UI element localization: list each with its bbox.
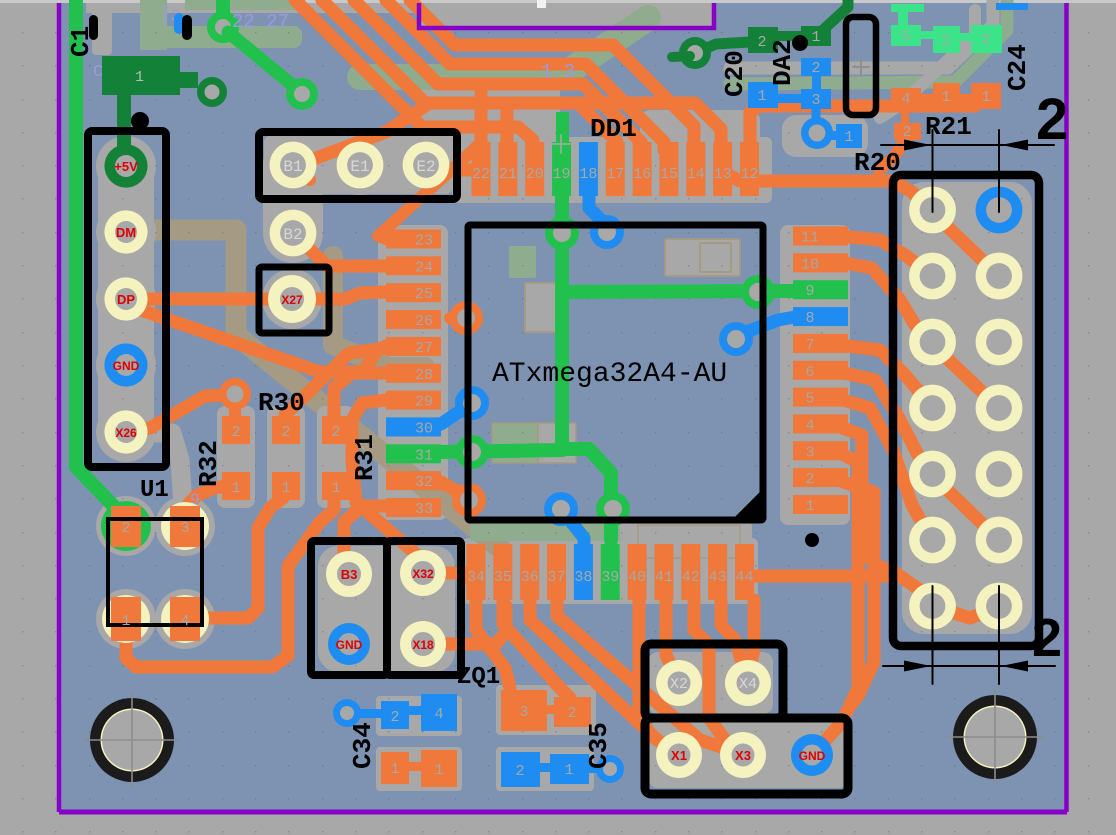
svg-text:2: 2 <box>1036 87 1068 152</box>
mounting hole bottom-right <box>953 695 1037 779</box>
connector pad X1 <box>656 732 702 778</box>
DD1 pad 44 <box>735 544 754 600</box>
wire pad 35 to C35 pad2 <box>503 600 570 698</box>
black pill marker 1 <box>89 15 98 40</box>
green via bottom <box>596 492 630 526</box>
svg-text:10: 10 <box>801 256 819 273</box>
capacitor C20 pad 2 <box>748 27 778 53</box>
svg-text:29: 29 <box>415 394 433 411</box>
svg-text:B3: B3 <box>341 567 358 582</box>
svg-text:41: 41 <box>655 569 673 586</box>
wire pad 32 to via <box>441 482 468 499</box>
muted component inside DD1 bottom-center <box>638 525 740 558</box>
blue via DA2 <box>801 117 833 149</box>
DD1 pad 5 <box>793 388 848 407</box>
connector U2 pad GND <box>104 343 147 386</box>
svg-text:19: 19 <box>553 166 571 183</box>
svg-text:22 27: 22 27 <box>232 11 289 33</box>
svg-text:23: 23 <box>415 233 433 250</box>
dark green via C20 <box>679 37 711 69</box>
svg-text:X27: X27 <box>281 293 303 307</box>
wire blue via to pad 8 <box>741 317 795 334</box>
sage band below DD1 <box>470 522 625 541</box>
svg-text:2: 2 <box>1032 608 1062 668</box>
wire pad 40 to X1 <box>639 600 672 750</box>
svg-text:2: 2 <box>331 424 340 441</box>
dimension top arrow right <box>1001 140 1028 151</box>
ZQ1 pad X18 <box>400 621 446 667</box>
wire R20 diagonal r1c1-r2c2 <box>932 212 999 276</box>
wire pad 44 to R20 r7c1 <box>754 576 929 604</box>
wire X32 to pad 34 <box>447 573 476 600</box>
gray backing B2 pad <box>263 203 323 263</box>
svg-text:GND: GND <box>336 638 363 652</box>
svg-text:22: 22 <box>472 166 490 183</box>
DD1 pad 6 <box>793 361 848 380</box>
wire pad 33 to B3 <box>344 506 386 566</box>
wire pad 6 to R20 r5c1 <box>840 372 928 468</box>
svg-text:2: 2 <box>390 709 399 726</box>
svg-text:14: 14 <box>687 166 705 183</box>
blue pill marker <box>174 13 184 34</box>
blue trace top right edge <box>996 3 1028 10</box>
wire C1 to +5V pad <box>117 95 131 148</box>
connector pad GND2 <box>791 734 833 776</box>
wire X32 to pad 29 <box>352 400 423 560</box>
wire blue via to pad 38 <box>564 513 584 550</box>
svg-text:16: 16 <box>633 166 651 183</box>
svg-text:5: 5 <box>805 391 814 408</box>
connector pad X3 <box>720 732 766 778</box>
wire X26 to via <box>135 395 232 430</box>
svg-text:1: 1 <box>331 480 340 497</box>
wire E2 to pad 22 <box>449 164 473 177</box>
connector pad B2 <box>270 210 317 257</box>
DD1 pad 16 <box>633 142 652 196</box>
svg-text:X2: X2 <box>670 676 688 693</box>
DD1 pad 2 <box>793 468 848 487</box>
wire blue pad18 to via <box>589 176 607 226</box>
svg-text:2: 2 <box>805 471 814 488</box>
svg-text:E1: E1 <box>350 158 369 176</box>
svg-text:12: 12 <box>740 166 758 183</box>
R20 pad row6 col1 <box>909 517 956 564</box>
sage cross near pad 19 <box>552 143 570 145</box>
DD1 pad 25 <box>386 283 441 302</box>
resistor R31 pad 2 <box>322 416 350 444</box>
svg-text:C34: C34 <box>348 722 378 769</box>
resistor R30 pad 1 <box>272 472 300 500</box>
C24 bridges and stem <box>919 31 935 39</box>
DD1 pad 37 <box>547 544 566 600</box>
svg-text:34: 34 <box>467 569 485 586</box>
wire green pad19 net vertical <box>555 176 569 449</box>
transistor DA2 pad 3 <box>801 89 831 109</box>
silkscreen box crystal top right <box>846 17 876 115</box>
DD1 pad 43 <box>708 544 727 600</box>
green via left <box>455 435 489 469</box>
blue pad 1 lower <box>836 124 862 148</box>
DD1 pad 7 <box>793 334 848 353</box>
svg-text:1: 1 <box>135 69 144 86</box>
wire pad 5 to R20 r6c1 <box>840 399 926 530</box>
svg-text:ZQ1: ZQ1 <box>457 664 500 691</box>
capacitor C35 pad 2b <box>501 752 540 787</box>
wire blue via to pad 30 <box>441 407 466 424</box>
svg-text:2: 2 <box>515 763 524 780</box>
connector pad X4 <box>725 660 771 706</box>
wire R32 via to pad2 <box>229 398 241 416</box>
mounting hole bottom-left <box>90 698 174 782</box>
connector pad X27 <box>268 275 316 323</box>
R20 pad row5 col1 <box>909 451 956 498</box>
svg-text:2: 2 <box>941 33 950 50</box>
dimension bottom extension line 2 <box>998 586 1000 684</box>
svg-text:20: 20 <box>526 166 544 183</box>
wire green stub above pad 19 <box>556 112 569 146</box>
R20 pad row5 col2 <box>976 451 1023 498</box>
DD1 pad 4 <box>793 414 848 433</box>
svg-text:40: 40 <box>628 569 646 586</box>
svg-text:26: 26 <box>415 313 433 330</box>
svg-text:B1: B1 <box>283 158 302 176</box>
svg-text:8: 8 <box>805 310 814 327</box>
DD1 pad 33 <box>386 498 441 517</box>
dimension top arrow left <box>904 140 931 151</box>
svg-text:4: 4 <box>180 613 189 630</box>
gray blob behind DA2 via <box>782 115 868 157</box>
silkscreen box left connector U2 <box>88 131 166 467</box>
capacitor C20 pad 1 <box>801 26 831 46</box>
svg-text:DD1: DD1 <box>590 114 637 144</box>
svg-text:E2: E2 <box>416 158 435 176</box>
U1 pad 1 cream backing <box>102 595 150 643</box>
gray copper behind bundle elbows <box>420 78 560 140</box>
gray backing X2 X4 connector <box>648 652 773 714</box>
sage trace top strip <box>185 0 305 10</box>
svg-text:39: 39 <box>601 569 619 586</box>
connector U2 pad DP <box>104 277 147 320</box>
capacitor C34 pad 4 <box>421 694 457 731</box>
capacitor C34 pad 1b <box>421 750 457 787</box>
tan outline component inside DD1 top-right <box>665 239 740 276</box>
dark green via C1 <box>197 77 227 107</box>
U1 pad 2 <box>111 506 141 547</box>
gray backing C35 pads <box>496 685 596 735</box>
gray cross in crystal box <box>853 66 869 68</box>
gray backing X1 X3 GND connector <box>648 722 848 788</box>
silkscreen box X1 X3 GND <box>645 718 848 794</box>
wire R21 pad2 stub <box>879 138 907 170</box>
gray backing U1 pads <box>96 496 156 556</box>
wire pad 23 diagonal <box>378 143 481 239</box>
svg-text:GND: GND <box>113 359 140 373</box>
svg-text:R20: R20 <box>854 148 901 178</box>
svg-text:2: 2 <box>811 60 820 77</box>
svg-text:1: 1 <box>121 613 130 630</box>
silkscreen box ZQ1 left <box>311 541 387 675</box>
DD1 pad 18 <box>579 142 598 196</box>
wire B1 pad trace <box>295 166 310 180</box>
svg-text:35: 35 <box>494 569 512 586</box>
wire pad 11 to R20 r2c1 <box>840 236 925 270</box>
resistor R21 pad 1a <box>933 83 960 109</box>
svg-text:3: 3 <box>811 92 820 109</box>
wire pad 37 to X3 <box>557 600 736 752</box>
ZQ1 pad X32 <box>400 550 446 596</box>
resistor R21 pad 4 <box>891 88 921 109</box>
DD1 pad 10 <box>793 253 848 272</box>
U1 pad 3 <box>170 506 200 547</box>
gray trace behind C24 pads <box>880 10 975 118</box>
svg-text:X3: X3 <box>735 748 751 763</box>
DD1 pad 36 <box>520 544 539 600</box>
gray band behind DD1 left pads <box>378 225 448 520</box>
svg-text:33: 33 <box>415 501 433 518</box>
DD1 pad 19 <box>552 142 571 196</box>
svg-text:4: 4 <box>805 417 814 434</box>
wire to pad 27 long diagonal <box>135 308 386 372</box>
resistor R32 pad 2 <box>222 416 250 444</box>
svg-text:21: 21 <box>499 166 517 183</box>
svg-text:1 3: 1 3 <box>541 61 575 83</box>
wire green bend to pad 39 <box>562 449 611 540</box>
transistor DA2 pad 2 <box>801 58 831 76</box>
gray band behind DD1 bottom pads <box>462 538 758 604</box>
tan trace from DM pad <box>150 230 500 548</box>
black dot mid-right <box>805 533 819 547</box>
svg-text:2: 2 <box>757 34 766 51</box>
silkscreen box ZQ1 right <box>387 541 461 675</box>
dimension bottom arrow left <box>904 661 931 672</box>
svg-text:R32: R32 <box>194 440 224 487</box>
wire green via top-left B <box>286 78 318 110</box>
connector U2 pad X26 <box>104 410 147 453</box>
blue via right <box>719 322 753 356</box>
gray backing R30 pads <box>267 406 305 508</box>
wire pad 13 to R20 r1c1 <box>723 150 928 208</box>
dimension bottom extension line 1 <box>932 586 934 684</box>
wire orange bundle diag 2 to pad 21 and pad 13 <box>322 0 721 150</box>
wire pad 17 feed diag <box>578 103 617 150</box>
connector pad X2 <box>656 660 702 706</box>
capacitor C34 via <box>333 699 361 727</box>
ZQ1 pad B3 <box>326 551 372 597</box>
wire orange bundle diag 5 to pad 14 <box>410 0 694 150</box>
svg-text:2: 2 <box>567 705 576 722</box>
silkscreen box R20 <box>893 175 1039 646</box>
wire pad 2 down <box>840 481 874 706</box>
svg-text:3: 3 <box>805 444 814 461</box>
DD1 pad 23 <box>386 230 441 249</box>
wire pad 44 to X4 <box>750 600 754 668</box>
dimension bottom arrow right <box>1001 661 1028 672</box>
svg-text:1: 1 <box>811 29 820 46</box>
gray backing left connector U2 <box>98 138 154 458</box>
wire pad 43 to X4 <box>721 600 745 672</box>
svg-text:ATxmega32A4-AU: ATxmega32A4-AU <box>492 359 727 390</box>
R21 bridges <box>919 94 935 102</box>
svg-text:R31: R31 <box>350 434 380 481</box>
R20 pad row3 col2 <box>976 319 1023 366</box>
black pill marker 2 <box>182 15 192 40</box>
wire R20 diagonal r5c1-r6c2 <box>932 475 999 540</box>
wire orange bundle diag 1 to pad 20 <box>295 0 533 150</box>
svg-text:37: 37 <box>548 569 566 586</box>
wire green horizontal to pad 31 <box>441 450 562 452</box>
DD1 pad 20 <box>525 142 544 196</box>
svg-text:B2: B2 <box>283 226 302 244</box>
wire C20 pad1 up <box>824 0 848 29</box>
wire pad 42 to X3 <box>694 600 742 750</box>
gray trace X26 to U1 area <box>150 433 183 505</box>
silkscreen box X27 <box>259 267 329 333</box>
blue via top <box>590 215 624 249</box>
R20 pad row6 col2 <box>976 517 1023 564</box>
top ruler strip <box>0 0 1116 3</box>
wire pad 36 to X1 <box>530 600 668 748</box>
R20 pad row7 col1 <box>909 583 956 630</box>
svg-text:X26: X26 <box>115 426 137 440</box>
capacitor C1 body <box>102 56 180 95</box>
wire green diagonal top-left <box>228 32 297 89</box>
DD1 pad 9 <box>793 280 848 299</box>
svg-text:1: 1 <box>757 88 766 105</box>
U1 pad 1 <box>111 597 141 641</box>
capacitor C35 pad 3 <box>501 690 547 731</box>
connector pad B1 <box>270 142 317 189</box>
svg-text:30: 30 <box>415 420 433 437</box>
sage trace top-left horizontal <box>160 26 302 48</box>
wire C20 via stub <box>672 56 690 57</box>
DD1 pad 26 <box>386 310 441 329</box>
resistor R21 pad 1b <box>971 83 1001 109</box>
orange via pad 26 <box>450 312 466 324</box>
board outline left edge <box>57 3 62 812</box>
svg-text:38: 38 <box>574 569 592 586</box>
svg-text:GND: GND <box>799 749 826 763</box>
sage trace top-right curve <box>730 0 1007 84</box>
muted components inside DD1 bottom-left <box>492 423 538 463</box>
capacitor C34 pad 1a <box>381 752 409 784</box>
DD1 pad 15 <box>659 142 678 196</box>
board outline top notch <box>419 3 714 28</box>
R20 pad row2 col2 <box>976 253 1023 300</box>
DD1 pad 32 <box>386 471 441 490</box>
green via right <box>741 275 775 309</box>
svg-text:6: 6 <box>805 364 814 381</box>
svg-text:36: 36 <box>521 569 539 586</box>
orange via pad 33 <box>452 483 486 517</box>
svg-text:C20: C20 <box>720 50 750 97</box>
U1 pad 3 cream backing <box>161 502 209 550</box>
wire pad 3 down to GND <box>824 453 858 742</box>
sage trace top-middle <box>360 18 648 77</box>
wire R20 diagonal r7c1-r7c2 <box>932 606 999 618</box>
wire pad 7 to R20 r4c1 <box>840 345 929 405</box>
capacitor C24 pad 5 <box>891 25 921 46</box>
DD1 pad 11 <box>793 227 848 246</box>
svg-text:7: 7 <box>805 337 814 354</box>
R20 pad row7 col2 <box>976 583 1023 630</box>
silkscreen box B1 E1 E2 <box>259 132 457 199</box>
svg-text:32: 32 <box>415 474 433 491</box>
sage component inside DD1 top-left <box>509 246 536 278</box>
resistor R21 pad 2 <box>894 123 921 140</box>
gray backing B1 E1 E2 connector <box>264 136 452 194</box>
DD1 pad 3 <box>793 441 848 460</box>
DD1 pad 40 <box>628 544 647 600</box>
wire orange bundle diag 3 to pad 16 <box>354 0 641 150</box>
DD1 pad 34 <box>467 544 486 600</box>
wire orange bundle diag 4 to pad 15 <box>386 0 664 150</box>
wire R30 pad2 to pad 27 <box>285 348 386 415</box>
gray trace top-right curve <box>730 0 993 68</box>
U1 pad 4 <box>170 597 200 641</box>
svg-text:24: 24 <box>415 259 433 276</box>
capacitor C34 pad 2 <box>381 701 409 729</box>
R20 pad row3 col1 <box>909 319 956 366</box>
wire pad 10 to R20 r3c1 <box>840 262 928 340</box>
R20 pad row1 col2 <box>976 187 1023 234</box>
svg-text:15: 15 <box>660 166 678 183</box>
svg-text:C24: C24 <box>1003 44 1033 91</box>
gray band behind DD1 right pads <box>780 225 850 525</box>
svg-text:1: 1 <box>981 89 990 106</box>
svg-text:3: 3 <box>180 520 189 537</box>
wire R20 diagonal r3c1-r4c2 <box>932 344 999 408</box>
svg-text:1: 1 <box>805 498 814 515</box>
gray band behind DD1 top pads <box>452 137 772 203</box>
board outline right edge <box>1064 3 1069 812</box>
gray backing ZQ1 pads <box>318 546 455 672</box>
gray copper region top-left <box>86 3 418 13</box>
capacitor C20 bridge <box>770 31 810 41</box>
R20 pad row1 col1 <box>909 187 956 234</box>
dimension top extension line 1 <box>932 130 934 212</box>
board outline bottom edge <box>59 810 1067 815</box>
svg-text:1: 1 <box>564 762 573 779</box>
dimension top line <box>881 144 1054 146</box>
svg-text:+5V: +5V <box>114 159 138 174</box>
DD1 pad 39 <box>601 544 620 600</box>
svg-text:C1: C1 <box>66 26 96 57</box>
svg-text:1: 1 <box>281 480 290 497</box>
R20 pad row4 col2 <box>976 385 1023 432</box>
transistor DA2 pad 1 <box>748 82 778 108</box>
DD1 pad 27 <box>386 337 441 356</box>
svg-text:1: 1 <box>434 762 443 779</box>
wire U1 pad1 to R31 pad1 <box>126 498 334 667</box>
black dot top-left <box>131 112 149 130</box>
capacitor C35 via <box>596 755 624 783</box>
svg-text:27: 27 <box>415 340 433 357</box>
DD1 pad 31 <box>386 444 441 463</box>
wire pad 21 feed <box>501 108 514 150</box>
DD1 pad 24 <box>386 256 441 275</box>
svg-text:R30: R30 <box>258 388 305 418</box>
C34 blue bridges <box>356 709 384 718</box>
svg-text:2: 2 <box>281 424 290 441</box>
svg-text:DA2: DA2 <box>768 39 798 86</box>
svg-text:1: 1 <box>844 129 853 146</box>
connector U2 pad DM <box>104 210 147 253</box>
svg-text:2: 2 <box>231 424 240 441</box>
U1 pad 2 green backing <box>101 501 151 551</box>
orange via R32 <box>219 378 251 410</box>
gray backing R32 pads <box>217 406 255 508</box>
svg-text:R21: R21 <box>925 112 972 142</box>
